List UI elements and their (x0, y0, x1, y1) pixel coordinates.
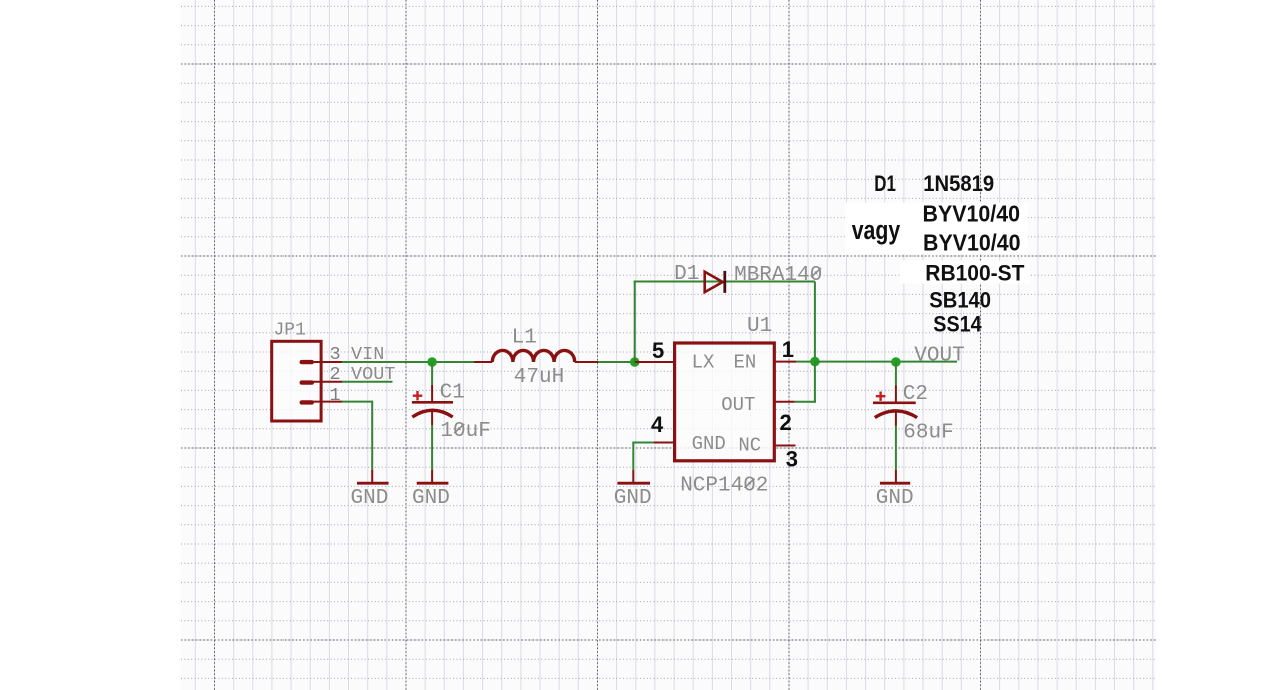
svg-text:C1: C1 (440, 382, 465, 405)
white patch behind RB100-ST (900, 261, 1030, 284)
svg-text:1N5819: 1N5819 (923, 171, 994, 196)
wire VOUT stub from JP1.2 (342, 381, 393, 383)
junction node LX (630, 357, 640, 367)
svg-text:2: 2 (330, 364, 341, 385)
capacitor C2 wire bottom (895, 412, 897, 426)
junction node VOUT/C2 (891, 357, 901, 367)
junction node VIN/C1 (427, 357, 437, 367)
svg-text:NCP1402: NCP1402 (680, 475, 768, 498)
svg-text:GND: GND (412, 487, 450, 510)
ground symbol (C1) (431, 470, 433, 483)
svg-text:2: 2 (780, 410, 792, 435)
svg-text:MBRA140: MBRA140 (734, 264, 822, 287)
svg-text:BYV10/40: BYV10/40 (923, 230, 1021, 256)
svg-text:L1: L1 (512, 327, 537, 350)
svg-text:3: 3 (786, 446, 798, 471)
capacitor C1 wire top (431, 362, 433, 385)
white patch behind annotations (845, 203, 1028, 255)
JP1 pin 2 stub (313, 381, 342, 383)
svg-text:1: 1 (330, 385, 341, 406)
svg-text:GND: GND (351, 487, 389, 510)
wire U1.4 down to ground (632, 442, 634, 471)
svg-text:5: 5 (652, 338, 664, 363)
U1 pin NC stub (774, 445, 795, 447)
svg-text:JP1: JP1 (274, 320, 306, 340)
capacitor C1 bottom plate (arc) (412, 410, 452, 417)
wire diode cathode down to EN junction (814, 282, 816, 362)
capacitor C1 plus sign (413, 395, 423, 397)
JP1 pin 3 stub (313, 361, 342, 363)
wire VIN: JP1.3 to L1 (342, 361, 474, 363)
svg-text:U1: U1 (747, 315, 772, 338)
wire junction up to diode (634, 281, 636, 363)
svg-text:68uF: 68uF (903, 421, 953, 444)
svg-text:EN: EN (734, 352, 757, 374)
svg-text:SS14: SS14 (933, 312, 982, 337)
capacitor C2 bottom plate (arc) (875, 411, 917, 418)
junction node EN/OUT/D1 (810, 357, 820, 367)
U1 pin LX stub (635, 361, 675, 363)
svg-text:GND: GND (876, 487, 914, 510)
U1 pin GND(4) stub (654, 442, 675, 444)
U1 pin EN stub (774, 361, 796, 363)
ground symbol (C2) (895, 470, 897, 483)
svg-text:1: 1 (782, 337, 794, 362)
svg-text:OUT: OUT (721, 394, 755, 416)
svg-text:3: 3 (330, 344, 341, 365)
svg-text:C2: C2 (903, 383, 928, 406)
U1 pin OUT stub (774, 401, 794, 403)
svg-text:D1: D1 (674, 263, 699, 286)
svg-text:SB140: SB140 (929, 288, 991, 313)
svg-text:NC: NC (738, 434, 761, 456)
svg-text:BYV10/40: BYV10/40 (923, 201, 1021, 227)
svg-text:D1: D1 (874, 171, 896, 196)
capacitor C2 plus sign (876, 395, 886, 397)
svg-text:vagy: vagy (852, 215, 901, 245)
capacitor C1 top plate (412, 401, 453, 404)
wire L1 to LX junction (598, 361, 635, 363)
svg-text:LX: LX (692, 352, 715, 374)
svg-text:VOUT: VOUT (914, 344, 964, 367)
capacitor C2 wire top (895, 362, 897, 386)
ground symbol (U1) (632, 470, 634, 483)
connector JP1 (272, 320, 321, 421)
svg-text:10uF: 10uF (440, 420, 490, 443)
svg-text:GND: GND (614, 487, 652, 510)
JP1 pin 1 stub (313, 401, 342, 403)
ground symbol (JP1) (371, 470, 373, 483)
IC U1 NCP1402 (675, 343, 775, 461)
wire VOUT rail (815, 361, 957, 363)
capacitor C1 wire bottom (431, 412, 433, 426)
inductor L1 (474, 361, 492, 363)
svg-text:RB100-ST: RB100-ST (925, 261, 1024, 286)
svg-text:GND: GND (692, 433, 726, 455)
capacitor C2 top plate (873, 401, 916, 404)
svg-text:4: 4 (651, 412, 664, 437)
diode D1 (705, 272, 723, 292)
wire GND from JP1.1 (342, 401, 372, 403)
svg-text:47uH: 47uH (514, 366, 564, 389)
